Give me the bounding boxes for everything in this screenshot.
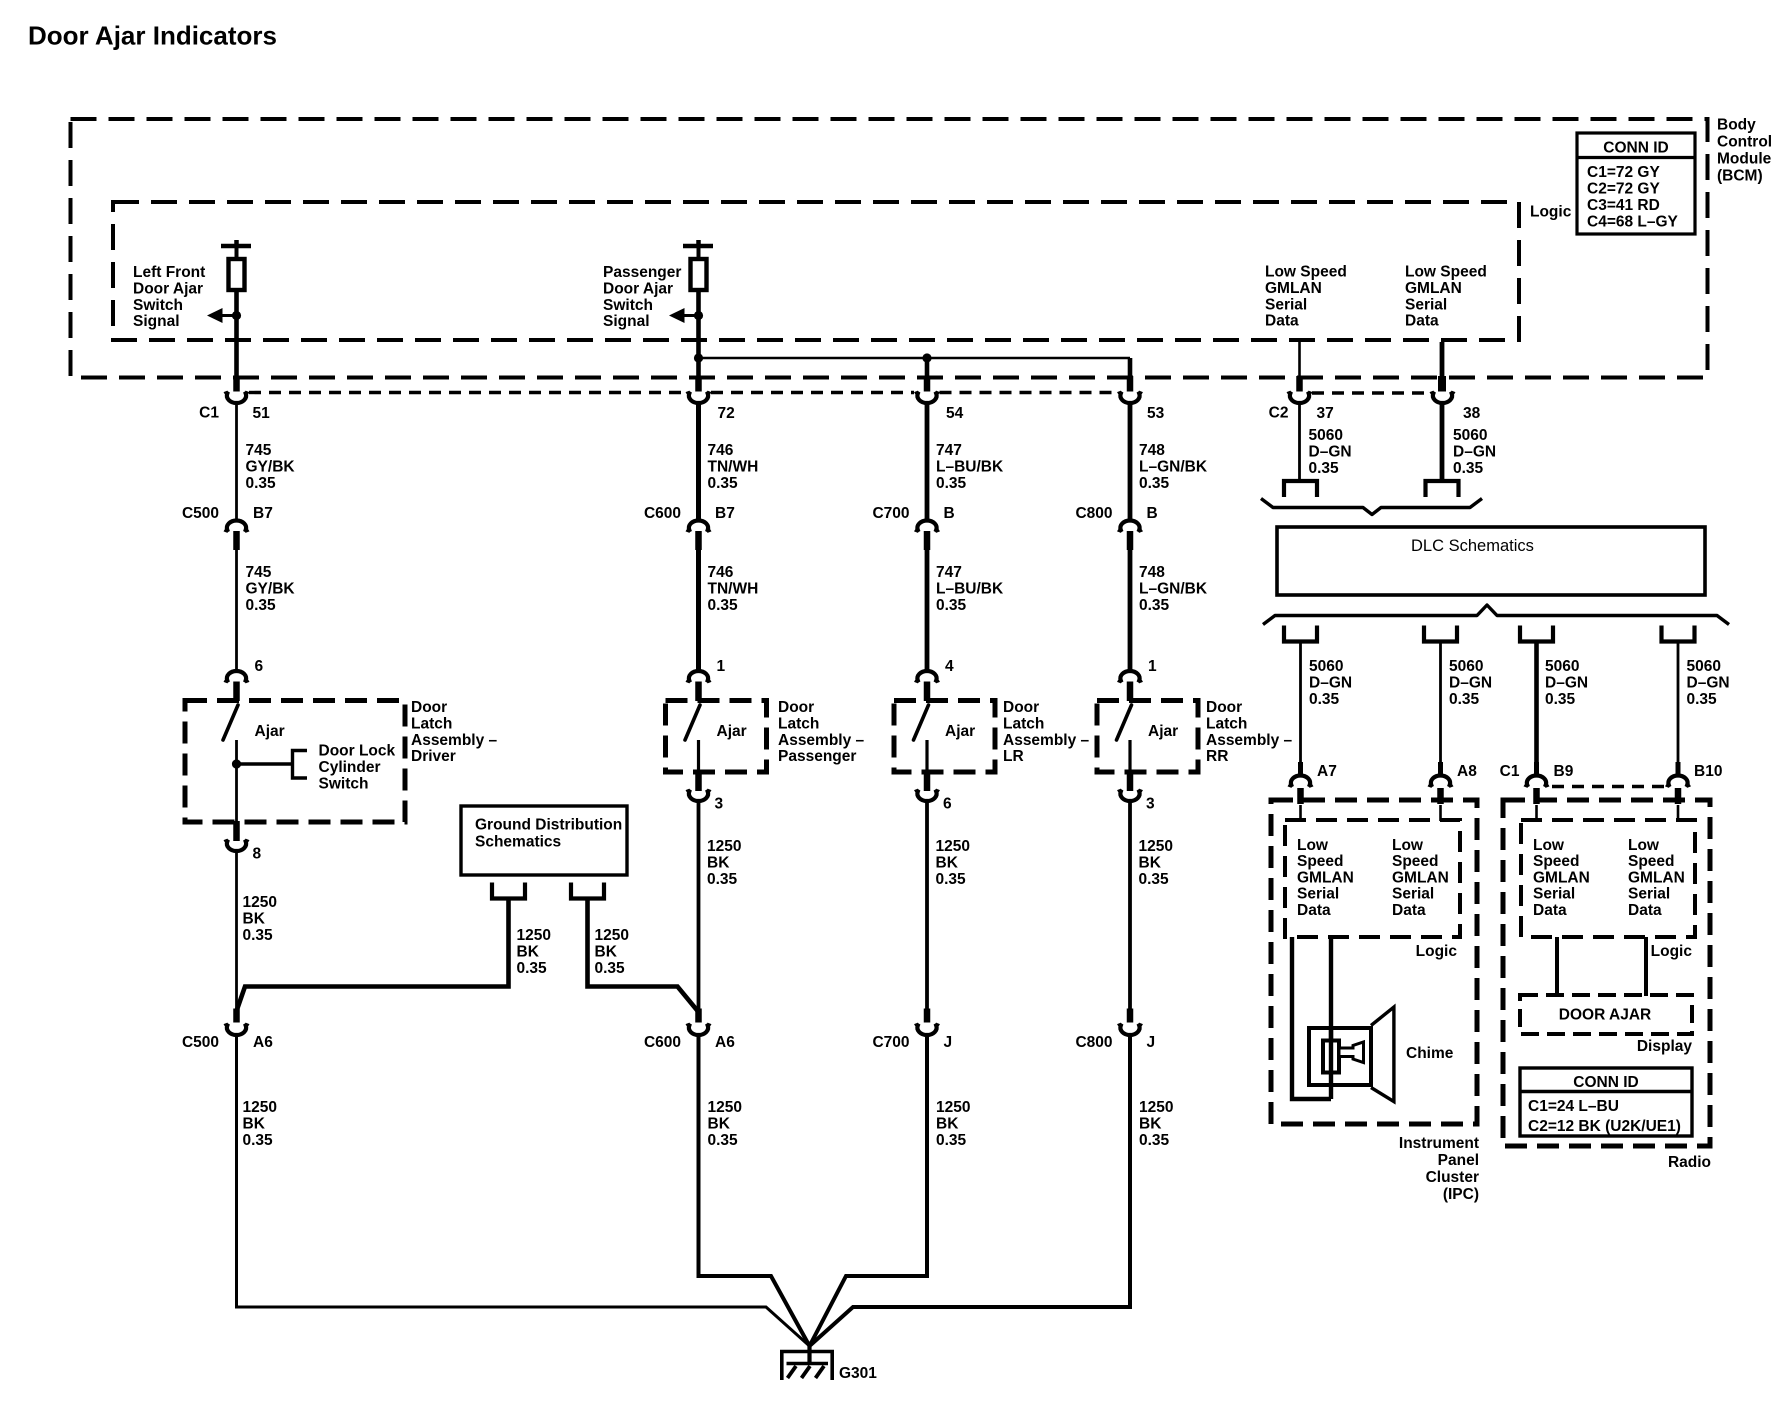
Door Latch Assembly RR dashed box: [1097, 701, 1198, 773]
wire label 1250 BK 0.35 (C800-G301): [1139, 1099, 1173, 1149]
svg-text:1250: 1250: [595, 927, 629, 944]
male pin J of C700: [924, 1009, 931, 1023]
svg-text:0.35: 0.35: [1139, 871, 1170, 888]
svg-text:Door Ajar: Door Ajar: [603, 280, 673, 297]
svg-text:C700: C700: [872, 505, 909, 522]
wire 745 inside BCM (driver): [234, 290, 239, 376]
svg-text:Speed: Speed: [1533, 853, 1580, 870]
junction driver signal tap: [232, 311, 241, 320]
svg-text:0.35: 0.35: [1309, 460, 1340, 477]
svg-text:0.35: 0.35: [1687, 691, 1718, 708]
svg-text:D–GN: D–GN: [1687, 674, 1730, 691]
Driver latch male pin 8: [233, 821, 240, 841]
wire radio logic to display right: [1644, 937, 1648, 996]
BCM Logic dashed box: [113, 202, 1519, 340]
svg-text:Switch: Switch: [603, 297, 653, 314]
brace to DLC schematics: [1261, 499, 1482, 515]
male pin J of C800: [1127, 1009, 1134, 1023]
wire 1250 BK (driver latch to C500): [235, 852, 238, 1014]
label Low Speed GMLAN Serial Data (A7): [1297, 837, 1354, 919]
svg-text:GMLAN: GMLAN: [1297, 869, 1354, 886]
wire to door lock cylinder switch: [237, 762, 292, 765]
svg-text:B7: B7: [253, 505, 273, 522]
wire GMLAN from logic to pin 38: [1440, 342, 1445, 377]
svg-text:Serial: Serial: [1405, 296, 1447, 313]
svg-text:0.35: 0.35: [708, 1132, 739, 1149]
BCM male pin 54: [924, 376, 931, 392]
svg-text:1250: 1250: [708, 1099, 742, 1116]
wire GMLAN from logic to pin 37: [1298, 342, 1301, 377]
Door Latch Assembly Driver dashed box: [185, 701, 405, 823]
svg-text:5060: 5060: [1453, 427, 1487, 444]
off-page connector (DLC to A8): [1424, 626, 1457, 642]
wire label 1250 BK 0.35 (C600-G301): [708, 1099, 742, 1149]
off-page connector (DLC to B9): [1520, 626, 1553, 642]
ajar switch blade (LR): [914, 705, 929, 740]
svg-text:CONN ID: CONN ID: [1603, 140, 1668, 157]
svg-text:(BCM): (BCM): [1717, 168, 1763, 185]
svg-text:B7: B7: [715, 505, 735, 522]
label Low Speed GMLAN Serial Data (A8): [1392, 837, 1449, 919]
label Low Speed GMLAN Serial Data (pin 38): [1405, 264, 1487, 330]
wire switch to pin 6 (LR): [925, 740, 928, 772]
svg-text:54: 54: [946, 405, 964, 422]
svg-text:1: 1: [717, 658, 726, 675]
svg-text:0.35: 0.35: [936, 871, 967, 888]
svg-text:BK: BK: [708, 1115, 731, 1132]
connector C1 cavity 54: [916, 391, 938, 403]
male pin A6 of C500: [233, 1009, 240, 1023]
svg-text:C1=72 GY: C1=72 GY: [1587, 164, 1660, 181]
svg-text:Data: Data: [1405, 313, 1439, 330]
svg-text:Ajar: Ajar: [255, 723, 285, 740]
svg-text:Data: Data: [1265, 313, 1299, 330]
svg-text:0.35: 0.35: [1545, 691, 1576, 708]
svg-text:C700: C700: [872, 1034, 909, 1051]
svg-text:Data: Data: [1533, 902, 1567, 919]
junction passenger signal tap: [694, 311, 703, 320]
svg-text:38: 38: [1463, 405, 1481, 422]
svg-text:GMLAN: GMLAN: [1405, 280, 1462, 297]
svg-text:3: 3: [1146, 796, 1155, 813]
wire 747 L-BU/BK upper: [925, 404, 930, 522]
inline connector C800 cavity B: [1119, 520, 1141, 532]
svg-text:BK: BK: [595, 943, 618, 960]
wire C500 A6 to G301: [237, 1036, 810, 1346]
wire 748 L-GN/BK lower: [1128, 550, 1133, 671]
svg-text:Low Speed: Low Speed: [1265, 264, 1347, 281]
RR latch male pin 3: [1127, 771, 1134, 791]
svg-text:BK: BK: [707, 854, 730, 871]
male pin A6 of C600: [695, 1009, 702, 1023]
svg-text:C600: C600: [644, 1034, 681, 1051]
svg-text:A6: A6: [715, 1034, 735, 1051]
CONN ID table (Radio): [1520, 1068, 1692, 1136]
svg-text:1250: 1250: [243, 894, 277, 911]
inline connector C700 cavity J: [916, 1023, 938, 1035]
svg-text:Door Ajar: Door Ajar: [133, 280, 203, 297]
svg-text:745: 745: [246, 564, 272, 581]
svg-text:J: J: [944, 1034, 953, 1051]
svg-text:Ajar: Ajar: [1148, 723, 1178, 740]
brace from DLC schematics: [1263, 605, 1729, 625]
svg-text:0.35: 0.35: [517, 960, 548, 977]
wire label 746 TN/WH 0.35 (lower): [708, 564, 759, 614]
svg-text:Data: Data: [1392, 902, 1426, 919]
svg-text:DOOR AJAR: DOOR AJAR: [1559, 1007, 1651, 1024]
svg-text:746: 746: [708, 564, 734, 581]
svg-text:0.35: 0.35: [936, 597, 967, 614]
connector cavity A8: [1430, 775, 1452, 787]
svg-text:Door: Door: [778, 699, 814, 716]
svg-text:0.35: 0.35: [243, 1132, 274, 1149]
wire A8 into IPC logic: [1439, 805, 1442, 821]
svg-text:LR: LR: [1003, 748, 1024, 765]
svg-text:Serial: Serial: [1533, 886, 1575, 903]
Door Latch Assembly LR dashed box: [894, 701, 995, 773]
inline connector C500 cavity B7: [226, 520, 248, 532]
wire branch to pin 54: [925, 358, 930, 376]
wire switch to pin 3 (Passenger): [697, 740, 700, 772]
label Door Latch Assembly - LR: [1003, 699, 1090, 765]
wire 5060 D-GN from pin 38: [1440, 404, 1445, 481]
svg-text:Door Ajar Indicators: Door Ajar Indicators: [28, 21, 277, 51]
svg-text:Serial: Serial: [1392, 886, 1434, 903]
label Door Lock Cylinder Switch: [319, 743, 396, 793]
Body Control Module (BCM) outer dashed box: [71, 119, 1708, 378]
label Instrument Panel Cluster (IPC): [1399, 1135, 1479, 1203]
svg-text:0.35: 0.35: [595, 960, 626, 977]
svg-text:0.35: 0.35: [708, 597, 739, 614]
driver signal supply T-bar: [221, 240, 251, 246]
wire label 748 L-GN/BK 0.35 (lower): [1139, 564, 1208, 614]
svg-text:Logic: Logic: [1651, 943, 1693, 960]
Passenger latch connector cavity 1: [688, 671, 710, 683]
svg-text:C800: C800: [1075, 1034, 1112, 1051]
wire 1250 BK below latch x=698.5: [697, 803, 701, 1011]
svg-text:C500: C500: [182, 1034, 219, 1051]
svg-text:L–BU/BK: L–BU/BK: [936, 458, 1004, 475]
svg-text:B: B: [1147, 505, 1158, 522]
wire label 5060 D-GN 0.35 (A8): [1449, 658, 1492, 708]
pull-up resistor (driver, left front door ajar switch signal): [229, 259, 245, 290]
svg-text:5060: 5060: [1309, 658, 1343, 675]
svg-text:Signal: Signal: [133, 313, 180, 330]
svg-text:Low Speed: Low Speed: [1405, 264, 1487, 281]
svg-text:Door: Door: [411, 699, 447, 716]
inline connector C600 cavity B7: [688, 520, 710, 532]
connector cavity B9: [1526, 775, 1548, 787]
wire switch to pin 3 (RR): [1128, 740, 1131, 772]
inline connector C500 cavity A6: [226, 1023, 248, 1035]
svg-text:746: 746: [708, 442, 734, 459]
off-page connector (wire 38 to DLC): [1426, 481, 1459, 497]
svg-text:CONN ID: CONN ID: [1573, 1074, 1638, 1091]
connector C2 cavity 38: [1432, 391, 1454, 403]
label Passenger Door Ajar Switch Signal: [603, 264, 681, 330]
svg-text:748: 748: [1139, 564, 1165, 581]
wire branch to pin 53: [1128, 358, 1133, 376]
wire label 1250 BK 0.35: [936, 838, 970, 888]
wire T-bar to resistor (driver): [235, 246, 239, 259]
connector C1 dotted cavity line: [249, 391, 686, 394]
BCM male pin 51: [233, 376, 240, 392]
svg-text:1250: 1250: [517, 927, 551, 944]
svg-text:D–GN: D–GN: [1545, 674, 1588, 691]
RR latch connector cavity 1: [1119, 671, 1141, 683]
svg-text:Assembly –: Assembly –: [1206, 732, 1293, 749]
svg-text:747: 747: [936, 564, 962, 581]
svg-text:C800: C800: [1075, 505, 1112, 522]
svg-text:Body: Body: [1717, 117, 1756, 134]
svg-text:C500: C500: [182, 505, 219, 522]
svg-text:1250: 1250: [936, 838, 970, 855]
svg-text:Low: Low: [1533, 837, 1565, 854]
svg-text:1250: 1250: [1139, 838, 1173, 855]
ajar switch blade (RR): [1117, 705, 1132, 740]
wire 5060 D-GN to A7: [1299, 643, 1302, 762]
svg-text:Cylinder: Cylinder: [319, 759, 381, 776]
svg-text:5060: 5060: [1545, 658, 1579, 675]
inline connector C800 cavity J: [1119, 1023, 1141, 1035]
svg-text:745: 745: [246, 442, 272, 459]
wire 748 L-GN/BK upper: [1128, 404, 1133, 522]
svg-text:1: 1: [1148, 658, 1157, 675]
svg-text:Chime: Chime: [1406, 1045, 1454, 1062]
junction at pin 54 branch: [922, 353, 931, 362]
svg-text:D–GN: D–GN: [1453, 443, 1496, 460]
svg-text:GY/BK: GY/BK: [246, 580, 296, 597]
svg-text:C2=12 BK (U2K/UE1): C2=12 BK (U2K/UE1): [1528, 1118, 1681, 1135]
svg-text:0.35: 0.35: [1449, 691, 1480, 708]
svg-text:D–GN: D–GN: [1309, 674, 1352, 691]
CONN ID table (BCM): [1577, 133, 1695, 234]
wire 745 GY/BK lower: [235, 550, 238, 671]
wire switch to pin 8 (Driver): [235, 740, 238, 822]
LR latch male pin 4: [924, 682, 931, 702]
wire 5060 D-GN from pin 37: [1298, 404, 1301, 481]
svg-text:Door: Door: [1003, 699, 1039, 716]
svg-text:0.35: 0.35: [1453, 460, 1484, 477]
svg-text:C1=24 L–BU: C1=24 L–BU: [1528, 1098, 1619, 1115]
chime drive lead: [1329, 937, 1333, 1099]
connector C2 cavity 37: [1289, 391, 1311, 403]
svg-text:Assembly –: Assembly –: [778, 732, 865, 749]
svg-text:Low: Low: [1297, 837, 1329, 854]
svg-text:C2: C2: [1269, 405, 1289, 422]
svg-text:B9: B9: [1554, 763, 1574, 780]
wire C700 J to G301: [810, 1036, 928, 1346]
chime speaker: [1309, 1007, 1394, 1102]
connector C1 cavity 53: [1119, 391, 1141, 403]
svg-text:1250: 1250: [1139, 1099, 1173, 1116]
male pin B9: [1534, 762, 1539, 777]
svg-text:Module: Module: [1717, 151, 1772, 168]
svg-text:GY/BK: GY/BK: [246, 458, 296, 475]
male pin B7 of C600: [695, 531, 702, 550]
svg-text:1250: 1250: [936, 1099, 970, 1116]
svg-text:C1: C1: [199, 405, 219, 422]
off-page connector (ground distribution left): [492, 883, 525, 899]
svg-text:Data: Data: [1297, 902, 1331, 919]
connector C1 cavity 51: [226, 391, 248, 403]
svg-text:L–GN/BK: L–GN/BK: [1139, 458, 1208, 475]
wire label 1250 BK 0.35: [1139, 838, 1173, 888]
svg-text:Panel: Panel: [1438, 1152, 1479, 1169]
wire B10 into radio logic: [1677, 805, 1680, 821]
BCM male pin 53: [1127, 376, 1134, 392]
svg-text:G301: G301: [839, 1365, 877, 1382]
svg-text:6: 6: [943, 796, 952, 813]
svg-text:Ground Distribution: Ground Distribution: [475, 817, 622, 834]
svg-text:C1: C1: [1500, 763, 1520, 780]
svg-text:Cluster: Cluster: [1426, 1169, 1479, 1186]
wire T-bar to resistor (passenger): [697, 246, 701, 259]
wire C600 A6 to G301: [699, 1036, 810, 1346]
passenger signal supply T-bar: [683, 240, 713, 246]
wire label 745 GY/BK 0.35 (lower): [246, 564, 296, 614]
svg-text:GMLAN: GMLAN: [1628, 869, 1685, 886]
svg-text:Assembly –: Assembly –: [1003, 732, 1090, 749]
wire 747 L-BU/BK lower: [925, 550, 930, 671]
arrow Passenger Door Ajar Switch Signal: [685, 314, 699, 317]
wire label 747 L-BU/BK 0.35 (upper): [936, 442, 1004, 492]
Driver latch connector cavity 8: [226, 839, 248, 851]
BCM name label: [1717, 117, 1772, 185]
Passenger latch connector cavity 3: [688, 789, 710, 801]
label Ground Distribution Schematics: [475, 817, 622, 851]
svg-text:BK: BK: [936, 854, 959, 871]
chime return lead: [1292, 937, 1331, 1099]
svg-text:5060: 5060: [1309, 427, 1343, 444]
svg-text:0.35: 0.35: [246, 475, 277, 492]
svg-text:6: 6: [255, 658, 264, 675]
connector C1 cavity 72: [688, 391, 710, 403]
svg-text:0.35: 0.35: [1309, 691, 1340, 708]
wire node passenger signal to pins 54 and 53: [699, 357, 1131, 360]
connector C2 dotted cavity line: [1312, 391, 1430, 394]
svg-text:5060: 5060: [1449, 658, 1483, 675]
svg-text:C3=41 RD: C3=41 RD: [1587, 197, 1660, 214]
svg-text:A7: A7: [1317, 763, 1337, 780]
wire 5060 D-GN to B9: [1534, 643, 1539, 762]
svg-text:0.35: 0.35: [936, 1132, 967, 1149]
Radio Logic dashed box: [1521, 820, 1695, 937]
radio connector C1 dotted cavity line: [1552, 785, 1665, 788]
wire 745 GY/BK upper: [235, 404, 238, 522]
wire label 1250 BK 0.35 (driver): [243, 894, 277, 944]
svg-text:Passenger: Passenger: [778, 748, 856, 765]
svg-text:BK: BK: [243, 1115, 266, 1132]
svg-text:Ajar: Ajar: [945, 723, 975, 740]
svg-text:GMLAN: GMLAN: [1265, 280, 1322, 297]
DOOR AJAR display dashed box: [1520, 995, 1692, 1034]
junction to door lock cylinder switch: [232, 759, 241, 768]
male pin B of C700: [924, 531, 931, 550]
svg-text:L–BU/BK: L–BU/BK: [936, 580, 1004, 597]
svg-text:A6: A6: [253, 1034, 273, 1051]
wire 746 TN/WH lower: [696, 550, 701, 671]
label Low Speed GMLAN Serial Data (B10): [1628, 837, 1685, 919]
BCM male pin 37: [1296, 376, 1303, 392]
Driver latch male pin 6: [233, 682, 240, 702]
svg-text:RR: RR: [1206, 748, 1228, 765]
svg-text:1250: 1250: [707, 838, 741, 855]
door lock cylinder switch bracket: [293, 751, 308, 779]
wire label 1250 BK 0.35 (C500-G301): [243, 1099, 277, 1149]
svg-text:8: 8: [253, 846, 262, 863]
svg-text:Switch: Switch: [319, 775, 369, 792]
svg-text:Speed: Speed: [1628, 853, 1675, 870]
wire label 5060 D-GN 0.35 (38): [1453, 427, 1496, 477]
svg-text:B10: B10: [1694, 763, 1722, 780]
svg-text:Latch: Latch: [1003, 715, 1044, 732]
label Door Latch Assembly - RR: [1206, 699, 1293, 765]
wire 5060 D-GN to A8: [1439, 643, 1442, 762]
inline connector C600 cavity A6: [688, 1023, 710, 1035]
svg-text:GMLAN: GMLAN: [1392, 869, 1449, 886]
LR latch connector cavity 4: [916, 671, 938, 683]
off-page connector (ground distribution right): [571, 883, 604, 899]
svg-text:C2=72 GY: C2=72 GY: [1587, 181, 1660, 198]
wire C800 J to G301: [810, 1036, 1131, 1346]
svg-text:Logic: Logic: [1530, 204, 1572, 221]
svg-text:0.35: 0.35: [707, 871, 738, 888]
off-page connector (DLC to A7): [1284, 626, 1317, 642]
svg-text:Serial: Serial: [1628, 886, 1670, 903]
svg-text:DLC Schematics: DLC Schematics: [1411, 537, 1534, 555]
svg-text:4: 4: [945, 658, 954, 675]
svg-text:GMLAN: GMLAN: [1533, 869, 1590, 886]
svg-text:Serial: Serial: [1265, 296, 1307, 313]
male pin B7 of C500: [233, 531, 240, 550]
svg-text:Low: Low: [1628, 837, 1660, 854]
off-page connector (wire 37 to DLC): [1284, 481, 1317, 497]
svg-text:(IPC): (IPC): [1443, 1186, 1479, 1203]
svg-text:Schematics: Schematics: [475, 834, 561, 851]
wire A7 into IPC logic: [1299, 805, 1302, 821]
wire label 748 L-GN/BK 0.35 (upper): [1139, 442, 1208, 492]
Driver latch connector cavity 6: [226, 671, 248, 683]
svg-text:BK: BK: [243, 910, 266, 927]
connector cavity B10: [1667, 775, 1689, 787]
Ground Distribution Schematics box: [461, 806, 627, 875]
wire label 745 GY/BK 0.35 (upper): [246, 442, 296, 492]
svg-text:Speed: Speed: [1392, 853, 1439, 870]
wire B9 into radio logic: [1535, 805, 1538, 821]
svg-text:BK: BK: [517, 943, 540, 960]
svg-text:B: B: [944, 505, 955, 522]
label Door Latch Assembly - Driver: [411, 699, 498, 765]
svg-text:Door: Door: [1206, 699, 1242, 716]
svg-text:748: 748: [1139, 442, 1165, 459]
wire 1250 BK ground distribution to C600: [588, 901, 699, 1013]
svg-text:TN/WH: TN/WH: [708, 580, 759, 597]
svg-text:Assembly –: Assembly –: [411, 732, 498, 749]
svg-text:Passenger: Passenger: [603, 264, 681, 281]
svg-text:Switch: Switch: [133, 297, 183, 314]
svg-text:51: 51: [253, 405, 271, 422]
svg-text:C4=68 L–GY: C4=68 L–GY: [1587, 214, 1679, 231]
svg-text:L–GN/BK: L–GN/BK: [1139, 580, 1208, 597]
module-side pin A8: [1437, 788, 1444, 804]
wire 1250 BK below latch x=1130.0: [1128, 803, 1132, 1011]
svg-text:Driver: Driver: [411, 748, 456, 765]
svg-text:0.35: 0.35: [708, 475, 739, 492]
wire label 746 TN/WH 0.35 (upper): [708, 442, 759, 492]
Passenger latch male pin 3: [695, 771, 702, 791]
male pin A7: [1298, 762, 1303, 777]
